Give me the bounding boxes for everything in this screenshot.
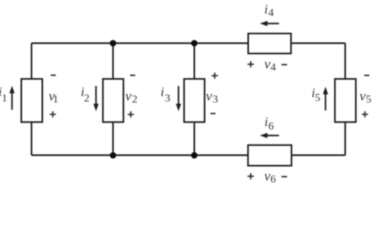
svg-text:1: 1 [53,94,59,106]
svg-text:2: 2 [84,93,90,105]
svg-text:2: 2 [132,94,138,106]
svg-text:3: 3 [213,94,219,106]
svg-text:4: 4 [268,7,274,19]
svg-text:6: 6 [270,174,276,186]
svg-text:5: 5 [315,92,321,104]
svg-text:5: 5 [366,94,372,106]
svg-text:1: 1 [2,93,8,105]
svg-text:6: 6 [268,121,274,133]
svg-text:3: 3 [165,93,171,105]
svg-text:4: 4 [270,62,276,74]
